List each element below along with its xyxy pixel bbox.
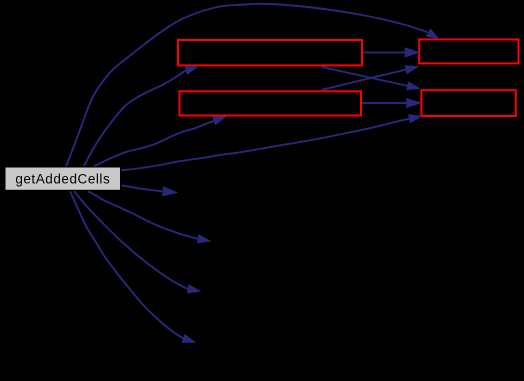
svg-text:getAddedCells: getAddedCells: [15, 171, 110, 186]
